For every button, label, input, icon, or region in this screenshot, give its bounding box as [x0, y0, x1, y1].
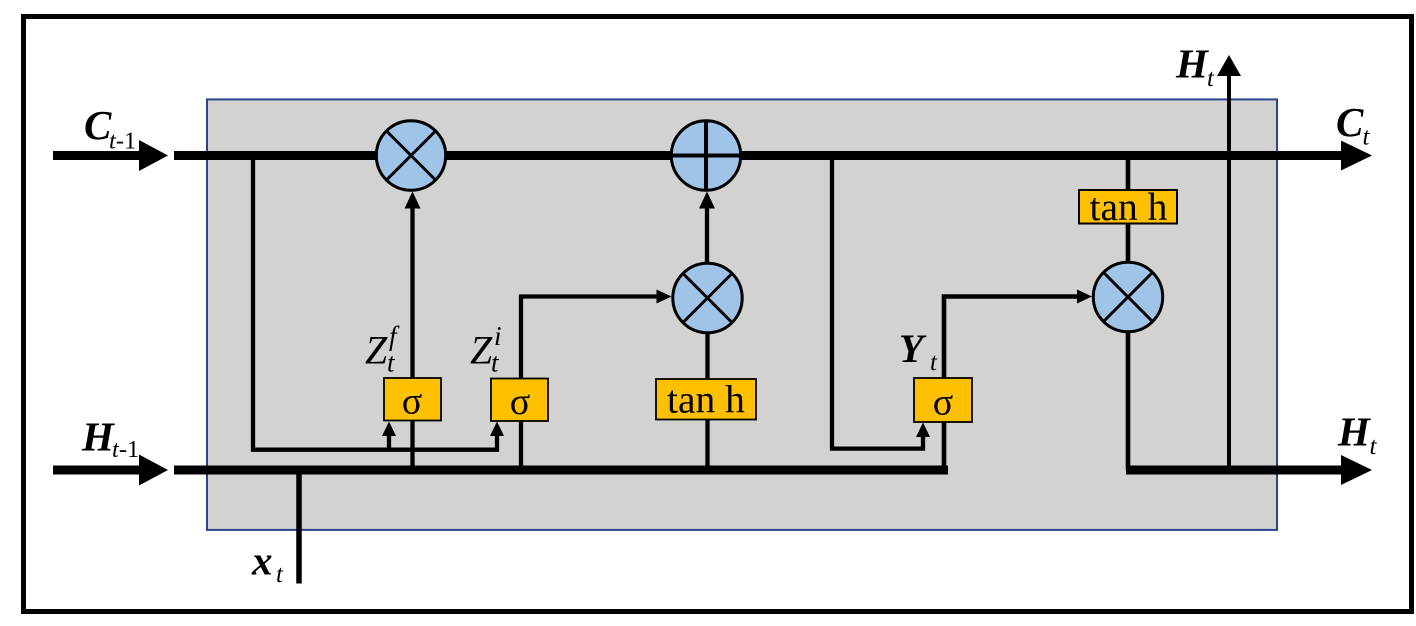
- svg-text:t: t: [1207, 65, 1215, 92]
- label Yt: [899, 326, 938, 376]
- label Ht right: [1337, 409, 1378, 461]
- wire: C-line vertical branch at x=253 with feed to sigma gates: [253, 155, 497, 450]
- wire: Ht vertical output exiting top: [1227, 74, 1231, 470]
- arrowhead into multiply node 2 left: [657, 290, 672, 304]
- arrowhead Ht output right: [1341, 455, 1372, 485]
- wire: C-line branch at x=832 down and right to output sigma: [832, 155, 923, 449]
- svg-text:t-1: t-1: [109, 128, 136, 155]
- label Zt^i: [470, 321, 502, 378]
- wire: forget gate vertical x=413 (H-line up through sigma to multiply): [410, 205, 414, 470]
- input arrow Ct-1: [53, 151, 141, 160]
- wire: C-line down through tanh to multiply node 3 at x=1128: [1126, 155, 1131, 262]
- sigma gate box Zi: [491, 379, 548, 422]
- svg-text:t: t: [1363, 124, 1371, 151]
- arrowhead into multiply node 1: [405, 192, 421, 209]
- svg-text:H: H: [81, 414, 115, 460]
- tanh output box: [1079, 190, 1177, 224]
- svg-text:t: t: [930, 349, 938, 376]
- wire: xt input vertical: [296, 470, 302, 584]
- svg-text:t: t: [1370, 433, 1378, 460]
- svg-text:C: C: [1336, 99, 1364, 145]
- arrowhead Ct output: [1341, 141, 1372, 171]
- label Ht top: [1175, 41, 1215, 93]
- svg-text:σ: σ: [402, 381, 422, 423]
- label Ct right: [1336, 99, 1371, 151]
- H-line thick horizontal right segment: [1126, 466, 1344, 475]
- svg-text:i: i: [494, 321, 502, 351]
- svg-text:Z: Z: [365, 328, 388, 373]
- input arrow Ht-1: [53, 466, 141, 475]
- wire: input gate vertical x=521 then right to multiply node 2: [521, 297, 662, 471]
- wire: output gate vertical x=944 then right to multiply node 3: [944, 297, 1082, 471]
- LSTM cell body (gray block): [207, 99, 1277, 530]
- label Ct-1: [84, 102, 136, 155]
- multiply node 1 (forget gate product): [376, 121, 445, 190]
- label xt: [251, 538, 284, 589]
- H-line (hidden state) thick horizontal left segment: [174, 466, 948, 475]
- arrowhead into sigma Zf: [382, 422, 396, 437]
- sigma gate box Yt: [914, 378, 972, 422]
- svg-text:tan h: tan h: [1090, 185, 1168, 229]
- svg-text:H: H: [1337, 409, 1371, 455]
- arrowhead Ht top: [1217, 55, 1241, 76]
- wire: multiply node 2 up to add node: [705, 205, 709, 262]
- label Ht-1: [81, 414, 139, 464]
- tanh gate box (candidate): [656, 379, 756, 420]
- arrowhead into multiply node 3 left: [1077, 290, 1092, 304]
- svg-text:tan h: tan h: [667, 378, 745, 422]
- label Zt^f: [365, 321, 400, 378]
- svg-text:x: x: [251, 538, 273, 584]
- wire: multiply node 3 down to H output line: [1126, 332, 1131, 470]
- svg-text:Z: Z: [470, 328, 493, 373]
- svg-text:σ: σ: [510, 381, 530, 423]
- sigma gate box Zf: [384, 378, 441, 421]
- C-line (cell state) thick horizontal: [174, 151, 1344, 160]
- svg-text:t-1: t-1: [112, 436, 139, 463]
- svg-text:H: H: [1175, 41, 1209, 87]
- arrowhead into sigma Yt: [916, 423, 930, 438]
- svg-text:C: C: [84, 102, 112, 148]
- arrowhead into add node: [699, 192, 715, 209]
- arrowhead into sigma Zi: [490, 422, 504, 437]
- multiply node 3 (output gate product): [1093, 262, 1162, 331]
- multiply node 2 (input gate product): [673, 263, 742, 332]
- svg-text:σ: σ: [933, 382, 953, 424]
- add node (cell state sum): [671, 121, 740, 190]
- svg-text:Y: Y: [899, 326, 927, 371]
- svg-text:t: t: [276, 561, 284, 588]
- wire: candidate tanh vertical x=707.5 up to multiply node 2: [705, 334, 709, 470]
